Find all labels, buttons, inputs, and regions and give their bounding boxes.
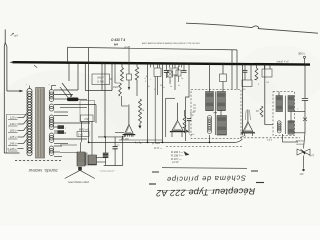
- svg-text:(500): (500): [124, 47, 130, 50]
- svg-text:0-245 v: 0-245 v: [8, 147, 18, 151]
- svg-text:160 v: 160 v: [10, 129, 17, 133]
- svg-text:2c: 2c: [177, 85, 180, 87]
- svg-text:M 50 mA: M 50 mA: [79, 129, 89, 132]
- svg-text:2c: 2c: [153, 89, 156, 91]
- svg-text:volume: volume: [296, 143, 304, 145]
- svg-text:6 v 3: 6 v 3: [78, 134, 84, 136]
- svg-text:c.a.v.: c.a.v.: [267, 140, 273, 142]
- svg-text:300 v: 300 v: [298, 52, 305, 56]
- svg-text:130 v: 130 v: [10, 122, 17, 126]
- svg-text:245 v: 245 v: [9, 142, 17, 146]
- svg-text:4 x 4μ: 4 x 4μ: [135, 141, 143, 145]
- svg-text:ChF: ChF: [84, 118, 89, 121]
- svg-text:Haut Parleur élect.: Haut Parleur élect.: [68, 180, 90, 184]
- svg-text:Contrôle: Contrôle: [295, 139, 304, 142]
- svg-text:+HT: +HT: [309, 154, 314, 158]
- svg-text:Récepteur Type 222 A2: Récepteur Type 222 A2: [156, 186, 256, 198]
- svg-text:M4: M4: [114, 42, 118, 46]
- svg-text:2c: 2c: [147, 86, 150, 88]
- svg-text:1MΩ: 1MΩ: [113, 87, 118, 89]
- svg-text:chauff. 4 v3: chauff. 4 v3: [277, 61, 290, 64]
- svg-text:Ω 500: Ω 500: [97, 81, 104, 84]
- svg-text:R 17 —: R 17 —: [154, 147, 163, 150]
- svg-text:- condensateurs -: - condensateurs -: [98, 170, 115, 173]
- svg-text:transfo. secteur: transfo. secteur: [28, 168, 57, 173]
- svg-text:A 2 W: A 2 W: [171, 161, 179, 164]
- svg-text:R 236 f —: R 236 f —: [171, 154, 183, 158]
- svg-text:μ 436: μ 436: [152, 141, 161, 145]
- svg-text:225 v: 225 v: [9, 135, 17, 139]
- svg-text:Schéma de principe: Schéma de principe: [166, 173, 246, 184]
- svg-text:2c: 2c: [169, 86, 172, 88]
- svg-text:ant.: ant.: [14, 33, 19, 38]
- svg-text:110 v: 110 v: [10, 116, 17, 120]
- svg-text:04307: 04307: [97, 77, 105, 80]
- svg-text:R 234 f —: R 234 f —: [171, 150, 183, 154]
- svg-text:AVEC AMPLIFICATEUR BASSE FREQU: AVEC AMPLIFICATEUR BASSE FREQUENCE TYPE …: [142, 42, 201, 45]
- svg-text:1 mΩ: 1 mΩ: [189, 134, 195, 136]
